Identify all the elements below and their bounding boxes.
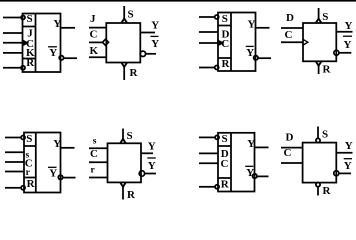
svg-text:Y: Y bbox=[246, 167, 254, 179]
wire Y-bar output FF5 bbox=[63, 177, 76, 179]
triangle marker on R input FF6 bbox=[120, 183, 125, 187]
bubble on Y-bar output FF3 bbox=[254, 56, 258, 60]
FF3 cell line under S bbox=[218, 25, 231, 27]
wire J input FF1 bbox=[3, 32, 23, 34]
wire S input FF1 bbox=[3, 17, 21, 19]
triangle marker on S input FF6 bbox=[120, 139, 125, 143]
svg-text:Y: Y bbox=[344, 160, 352, 172]
clock edge triangle FF1 bbox=[23, 41, 27, 46]
svg-text:D: D bbox=[286, 132, 294, 144]
bubble on Y-bar output FF5 bbox=[58, 175, 62, 179]
bubble on R input FF5 bbox=[21, 186, 25, 190]
svg-text:Y: Y bbox=[344, 39, 352, 51]
wire C clock input FF1 bbox=[3, 42, 23, 44]
FF7 label column divider bbox=[230, 133, 232, 192]
svg-text:Y: Y bbox=[151, 20, 159, 32]
flip-flop FF7 body bbox=[218, 133, 255, 192]
wire S input FF8 (top) bbox=[317, 127, 319, 139]
FF1 cell line above R bbox=[23, 58, 36, 60]
wire R input FF7 bbox=[199, 186, 215, 188]
svg-text:Y: Y bbox=[148, 160, 156, 172]
FF5 cell line above R bbox=[24, 177, 36, 179]
wire R input FF4 (bottom) bbox=[318, 65, 320, 74]
svg-text:D: D bbox=[286, 12, 294, 24]
FF3 label column divider bbox=[230, 13, 232, 72]
wire S input FF3 bbox=[199, 16, 215, 18]
svg-text:Y: Y bbox=[148, 140, 156, 152]
wire Y output FF5 bbox=[61, 147, 75, 149]
wire s input FF5 bbox=[5, 151, 24, 153]
overline of Y-bar label FF5 bbox=[48, 166, 57, 168]
overline of Y-bar label FF2 bbox=[151, 35, 159, 37]
svg-text:Y: Y bbox=[49, 168, 57, 180]
wire K input FF1 bbox=[3, 52, 23, 54]
bubble on Y-bar output FF8 bbox=[334, 171, 339, 176]
wire C clock input FF6 bbox=[89, 161, 108, 163]
wire R input FF6 (bottom) bbox=[122, 187, 124, 200]
svg-text:S: S bbox=[222, 133, 228, 145]
wire Y output FF8 bbox=[336, 152, 352, 154]
wire s input FF6 bbox=[89, 147, 108, 149]
wire S input FF4 (top) bbox=[318, 8, 320, 19]
wire Y-bar output FF7 bbox=[257, 175, 269, 177]
bubble on Y-bar output FF2 bbox=[140, 51, 145, 56]
FF3 cell line above R bbox=[218, 57, 231, 59]
wire Y-bar output FF2 bbox=[146, 53, 156, 55]
bubble on S input FF5 bbox=[21, 136, 25, 140]
flip-flop FF4 body bbox=[303, 23, 336, 61]
wire R input FF2 (bottom) bbox=[123, 67, 125, 80]
wire D input FF8 bbox=[281, 147, 303, 149]
overline of Y-bar label FF3 bbox=[246, 45, 254, 47]
wire Y output FF7 bbox=[255, 146, 269, 148]
wire Y output FF2 bbox=[140, 32, 155, 34]
svg-text:Y: Y bbox=[345, 140, 353, 152]
wire J input FF2 bbox=[89, 27, 106, 29]
wire Y output FF3 bbox=[256, 27, 270, 29]
bubble on R input FF3 bbox=[215, 66, 219, 70]
bubble on Y-bar output FF6 bbox=[139, 171, 144, 176]
wire Y-bar output FF3 bbox=[258, 57, 271, 59]
wire Y-bar output FF4 bbox=[339, 52, 351, 54]
wire R input FF3 bbox=[199, 67, 215, 69]
svg-text:S: S bbox=[127, 130, 133, 142]
triangle marker on R input FF4 bbox=[316, 62, 321, 66]
svg-text:Y: Y bbox=[345, 20, 353, 32]
svg-text:R: R bbox=[221, 179, 230, 191]
svg-text:Y: Y bbox=[247, 138, 255, 150]
svg-text:C: C bbox=[221, 38, 229, 50]
flip-flop FF5 body bbox=[24, 133, 61, 193]
overline of Y-bar label FF8 bbox=[344, 158, 352, 160]
overline of Y-bar label FF7 bbox=[245, 165, 253, 167]
svg-text:Y: Y bbox=[246, 47, 254, 59]
bubble on R input FF7 bbox=[215, 185, 219, 189]
bubble on S input FF8 bbox=[316, 138, 320, 142]
bubble on S input FF3 bbox=[215, 15, 219, 19]
FF5 cell line under S bbox=[24, 145, 36, 147]
bubble on R input FF8 bbox=[316, 183, 320, 187]
svg-text:Y: Y bbox=[53, 18, 61, 30]
wire D input FF4 bbox=[281, 27, 303, 29]
wire C clock input FF8 bbox=[281, 162, 303, 164]
flip-flop FF3 body bbox=[218, 13, 256, 72]
svg-text:R: R bbox=[127, 189, 136, 201]
flip-flop FF2 body bbox=[106, 23, 140, 63]
svg-text:C: C bbox=[285, 29, 293, 41]
triangle marker on R input FF2 bbox=[122, 63, 128, 67]
bubble on S input FF1 bbox=[21, 16, 25, 20]
svg-text:Y: Y bbox=[151, 38, 159, 50]
FF7 cell line under S bbox=[218, 145, 231, 147]
wire R input FF1 bbox=[3, 67, 21, 69]
wire Y-bar output FF1 bbox=[64, 57, 77, 59]
bubble on S input FF7 bbox=[215, 135, 219, 139]
FF5 label column divider bbox=[35, 133, 37, 193]
svg-text:S: S bbox=[26, 133, 32, 145]
wire Y output FF1 bbox=[61, 27, 76, 29]
svg-text:C: C bbox=[90, 29, 98, 41]
wire C clock input FF7 bbox=[199, 162, 218, 164]
flip-flop FF8 body bbox=[303, 143, 337, 183]
wire C clock input FF5 bbox=[5, 161, 24, 163]
wire R input FF5 bbox=[5, 187, 21, 189]
wire Y output FF4 bbox=[336, 31, 352, 33]
svg-text:Y: Y bbox=[53, 138, 61, 150]
svg-text:R: R bbox=[323, 64, 332, 76]
svg-text:S: S bbox=[222, 13, 228, 25]
wire r input FF5 bbox=[5, 171, 24, 173]
wire Y output FF6 bbox=[141, 152, 153, 154]
svg-text:R: R bbox=[26, 57, 35, 69]
FF7 cell line above R bbox=[218, 177, 231, 179]
svg-text:R: R bbox=[130, 67, 139, 79]
top border line bbox=[0, 0, 356, 2]
wire Y-bar output FF8 bbox=[339, 172, 351, 174]
wire R input FF8 (bottom) bbox=[317, 187, 319, 196]
svg-text:S: S bbox=[27, 13, 33, 25]
wire C clock input FF2 bbox=[89, 41, 103, 43]
svg-text:S: S bbox=[322, 11, 328, 23]
svg-text:R: R bbox=[323, 185, 332, 197]
svg-text:C: C bbox=[90, 148, 98, 160]
wire S input FF7 bbox=[199, 136, 215, 138]
wire C clock input FF4 bbox=[281, 41, 303, 43]
svg-text:K: K bbox=[90, 45, 99, 57]
svg-text:S: S bbox=[128, 9, 134, 21]
bubble on Y-bar output FF1 bbox=[59, 56, 63, 60]
wire r input FF6 bbox=[89, 177, 108, 179]
FF1 cell line under S bbox=[23, 26, 36, 28]
svg-text:C: C bbox=[284, 147, 292, 159]
wire Y-bar output FF6 bbox=[145, 173, 156, 175]
wire S input FF5 bbox=[5, 137, 21, 139]
flip-flop FF1 body bbox=[23, 14, 61, 73]
wire D input FF7 bbox=[199, 152, 218, 154]
wire K input FF2 bbox=[89, 56, 106, 58]
wire S input FF2 (top) bbox=[123, 6, 125, 20]
bubble on Y-bar output FF4 bbox=[334, 50, 339, 55]
bubble on R input FF1 bbox=[21, 66, 25, 70]
wire C clock input FF3 bbox=[199, 42, 218, 44]
flip-flop FF6 body bbox=[108, 143, 142, 182]
svg-text:J: J bbox=[90, 13, 96, 25]
triangle marker on S input FF2 bbox=[122, 19, 128, 23]
clock edge triangle FF4 bbox=[303, 39, 308, 45]
FF1 label column divider bbox=[35, 14, 37, 73]
svg-text:R: R bbox=[27, 178, 36, 190]
clock edge triangle FF3 bbox=[218, 41, 222, 46]
overline of Y-bar label FF4 bbox=[343, 35, 352, 37]
svg-text:C: C bbox=[221, 158, 229, 170]
svg-text:S: S bbox=[322, 129, 328, 141]
bubble on Y-bar output FF7 bbox=[253, 174, 257, 178]
svg-text:Y: Y bbox=[248, 18, 256, 30]
overline of Y-bar label FF6 bbox=[147, 157, 156, 159]
wire S input FF6 (top) bbox=[122, 129, 124, 140]
triangle marker on S input FF4 bbox=[316, 19, 321, 23]
diamond marker on C input FF2 bbox=[103, 39, 109, 45]
svg-text:Y: Y bbox=[49, 47, 57, 59]
wire D input FF3 bbox=[199, 31, 218, 33]
svg-text:s: s bbox=[93, 137, 97, 147]
svg-text:R: R bbox=[222, 58, 231, 70]
overline of Y-bar label FF1 bbox=[48, 46, 57, 48]
